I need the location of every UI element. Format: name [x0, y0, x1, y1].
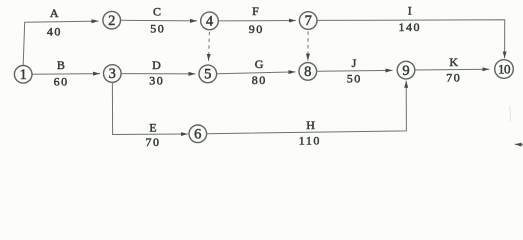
svg-text:K: K [449, 55, 459, 69]
svg-text:10: 10 [498, 61, 510, 76]
svg-text:4: 4 [206, 14, 214, 30]
svg-text:9: 9 [402, 63, 409, 79]
svg-text:60: 60 [54, 74, 69, 88]
svg-text:40: 40 [47, 25, 62, 39]
svg-text:3: 3 [109, 66, 116, 82]
svg-text:6: 6 [194, 127, 201, 143]
svg-text:80: 80 [252, 73, 267, 87]
svg-text:1: 1 [20, 67, 27, 83]
svg-text:F: F [252, 4, 260, 18]
svg-text:50: 50 [150, 22, 165, 36]
svg-text:2: 2 [108, 13, 115, 29]
svg-text:70: 70 [146, 135, 161, 149]
svg-text:D: D [152, 58, 162, 72]
svg-text:90: 90 [249, 22, 264, 36]
svg-text:30: 30 [149, 74, 164, 88]
svg-text:50: 50 [347, 72, 362, 86]
svg-text:J: J [352, 56, 358, 70]
svg-text:A: A [50, 6, 60, 20]
svg-text:G: G [255, 57, 265, 71]
svg-text:8: 8 [304, 64, 311, 80]
svg-text:C: C [153, 4, 163, 18]
svg-text:B: B [57, 58, 67, 72]
svg-text:5: 5 [204, 67, 211, 83]
svg-text:H: H [306, 118, 316, 132]
svg-text:70: 70 [446, 70, 461, 84]
svg-text:E: E [149, 120, 158, 134]
svg-text:I: I [408, 4, 414, 18]
svg-text:140: 140 [399, 20, 422, 34]
svg-text:7: 7 [305, 13, 312, 29]
svg-text:110: 110 [299, 133, 321, 147]
